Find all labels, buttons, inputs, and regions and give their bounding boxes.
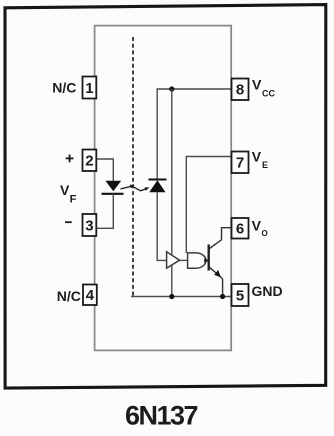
wire amp output to gate	[180, 259, 188, 261]
IC package outline U1	[95, 26, 232, 351]
svg-text:N/C: N/C	[57, 288, 81, 304]
wire pin7 enable to gate	[186, 157, 231, 254]
wire photodiode to amp input	[157, 192, 166, 261]
svg-text:2: 2	[85, 153, 93, 170]
transistor Q1 emitter wire to ground rail	[210, 267, 223, 296]
svg-text:6: 6	[236, 221, 244, 238]
pin 4 box	[83, 285, 97, 306]
pin 1 box	[83, 77, 97, 99]
LED cathode bar	[102, 193, 124, 195]
light arrow 2	[134, 187, 150, 191]
wire pin2 to LED anode	[96, 159, 113, 181]
pin 7 box	[232, 152, 249, 174]
pin 6 box	[232, 218, 249, 239]
AND gate U2	[188, 253, 206, 268]
pin 5 box	[232, 284, 249, 306]
wire Vcc branch to amp and ground rail	[171, 89, 173, 297]
pin 2 box	[83, 150, 97, 172]
photodiode D2	[150, 181, 165, 192]
svg-text:F: F	[70, 194, 77, 206]
svg-text:1: 1	[85, 80, 93, 97]
pin 8 box	[232, 79, 249, 101]
wire pin8 Vcc rail	[157, 89, 231, 180]
svg-text:7: 7	[236, 155, 244, 172]
transistor Q1 base bar	[207, 245, 209, 271]
wire LED cathode to pin3	[96, 194, 113, 229]
pin 2 plus label	[66, 155, 74, 163]
gate output arrow to base	[204, 258, 209, 262]
LED D1 emitter diode	[106, 181, 120, 190]
svg-text:GND: GND	[252, 283, 283, 299]
ground rail wire	[131, 296, 232, 298]
svg-text:N/C: N/C	[52, 80, 76, 96]
svg-text:E: E	[262, 160, 268, 170]
junction dot Vcc	[169, 86, 174, 91]
isolation dashed line	[132, 37, 134, 296]
op-amp A1 buffer	[167, 252, 180, 268]
svg-text:8: 8	[236, 82, 244, 99]
light arrow 1	[121, 185, 135, 189]
svg-text:CC: CC	[262, 89, 275, 99]
svg-text:4: 4	[86, 287, 95, 304]
pin 3 box	[83, 214, 97, 236]
svg-text:5: 5	[236, 287, 244, 304]
junction dot ground-amp	[169, 294, 174, 299]
pin 3 minus label	[65, 221, 72, 223]
junction dot emitter-ground	[220, 294, 225, 299]
svg-text:V: V	[252, 76, 262, 92]
emitter arrowhead	[214, 270, 221, 277]
svg-text:3: 3	[85, 217, 93, 234]
svg-text:V: V	[60, 182, 70, 198]
svg-text:V: V	[252, 217, 262, 233]
svg-text:V: V	[252, 148, 262, 164]
photodiode D2 cathode bar	[149, 178, 167, 180]
transistor Q1 collector wire to pin6	[210, 228, 232, 249]
svg-text:O: O	[262, 229, 268, 238]
svg-text:6N137: 6N137	[125, 401, 198, 431]
